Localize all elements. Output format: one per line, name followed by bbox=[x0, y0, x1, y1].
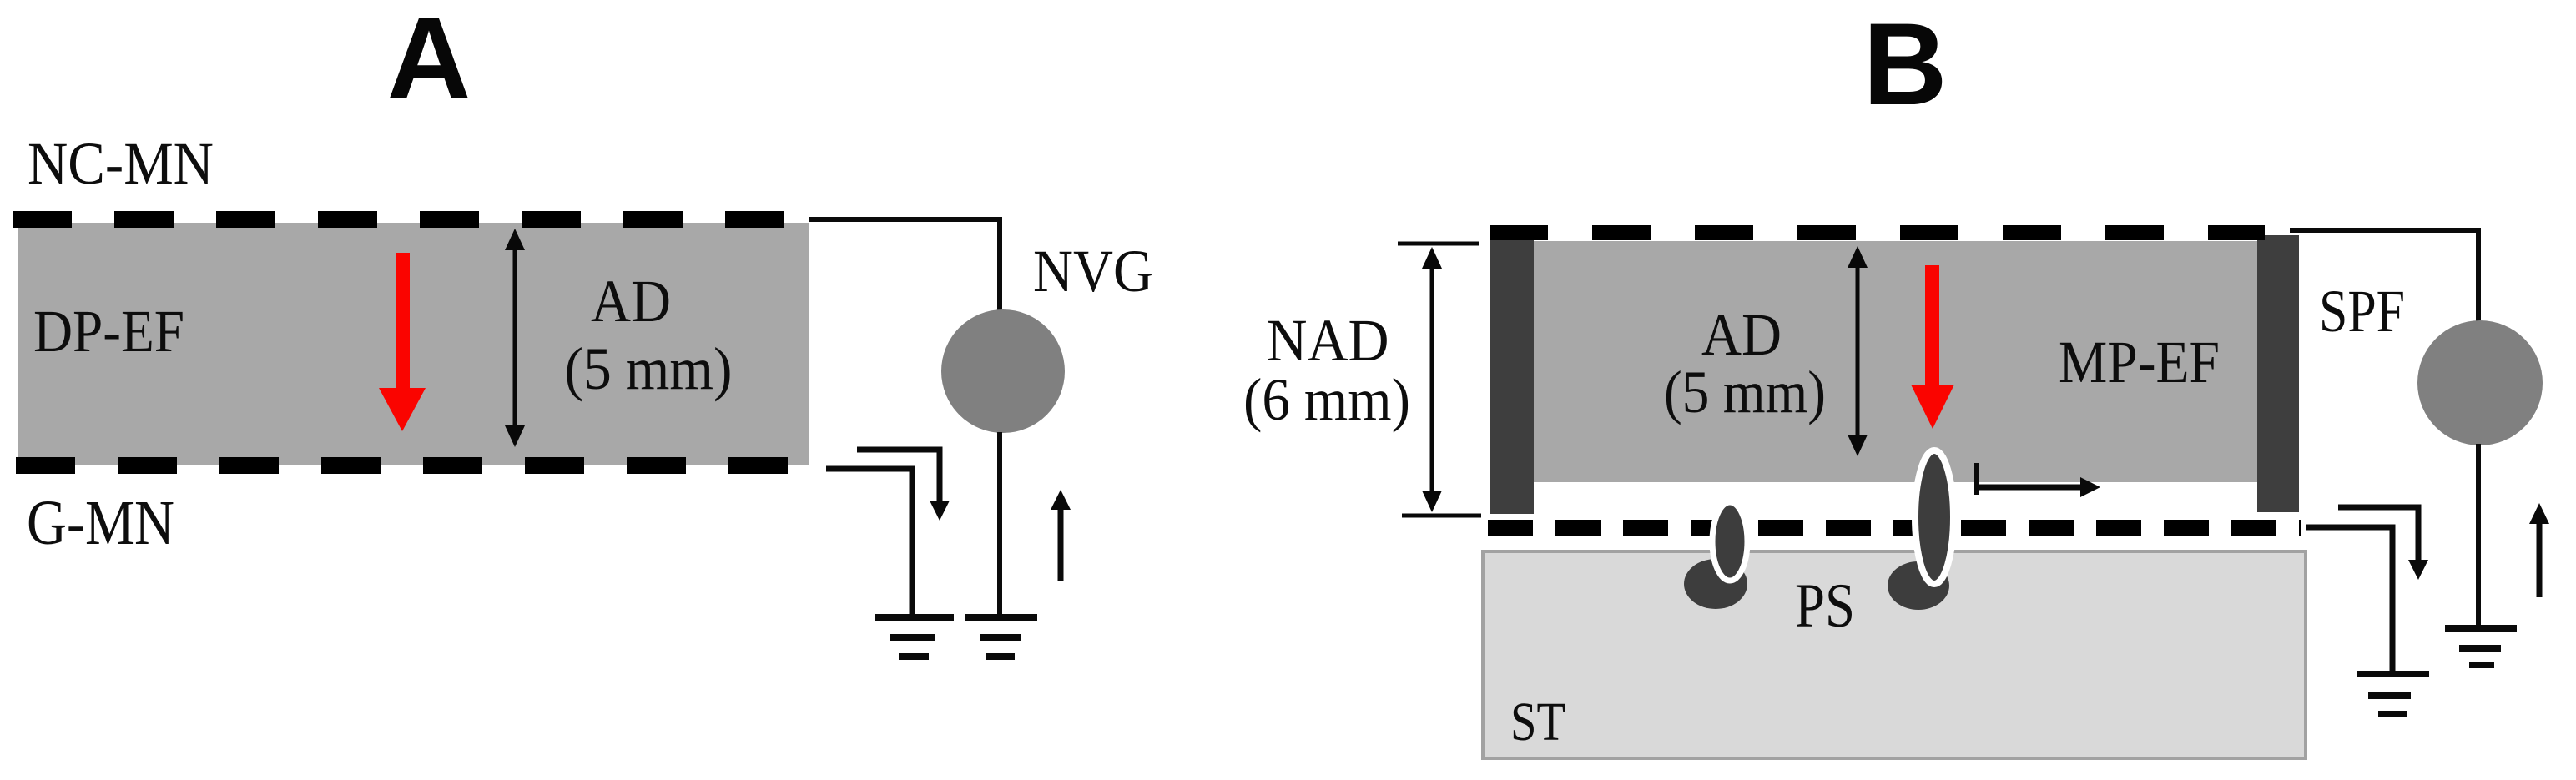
dielectric slab DP-EF bbox=[18, 223, 809, 465]
red polarization arrow A bbox=[379, 253, 426, 431]
svg-text:ST: ST bbox=[1510, 692, 1565, 752]
wire SPF to NVG (B) bbox=[2290, 230, 2478, 323]
ground hook (B) bbox=[2357, 671, 2429, 717]
svg-text:A: A bbox=[386, 0, 471, 123]
ground NVG (B) bbox=[2445, 625, 2517, 668]
ground G-MN (A) bbox=[875, 614, 954, 660]
PS droplet large bbox=[1915, 450, 1953, 584]
voltage source circle (B) bbox=[2417, 320, 2543, 445]
substrate ST bbox=[1483, 551, 2306, 758]
dimension arrow AD (A) bbox=[505, 229, 525, 447]
membrane slab MP-EF bbox=[1534, 241, 2257, 482]
red polarization arrow B bbox=[1911, 265, 1954, 429]
ground NVG (A) bbox=[965, 614, 1037, 660]
svg-text:MP-EF: MP-EF bbox=[2059, 329, 2220, 395]
svg-text:(6 mm): (6 mm) bbox=[1243, 366, 1410, 433]
electrode G-MN bottom dashed line bbox=[16, 457, 791, 474]
current arrow down (B) bbox=[2338, 507, 2418, 561]
svg-text:(5 mm): (5 mm) bbox=[1664, 359, 1826, 425]
electrode bottom dashed line (B) bbox=[1488, 520, 2301, 536]
current arrow up (A) bbox=[1058, 507, 1064, 581]
svg-text:DP-EF: DP-EF bbox=[33, 298, 184, 365]
svg-text:B: B bbox=[1863, 0, 1947, 129]
svg-text:SPF: SPF bbox=[2319, 278, 2405, 345]
dimension arrow NAD bbox=[1422, 247, 1442, 512]
PS blob large bbox=[1888, 561, 1949, 610]
svg-text:AD: AD bbox=[1701, 301, 1782, 368]
dimension arrow AD (B) bbox=[1848, 246, 1868, 456]
electrode SPF right bar bbox=[2257, 235, 2299, 512]
svg-text:NC-MN: NC-MN bbox=[28, 130, 214, 197]
current arrow up (B) bbox=[2537, 521, 2543, 597]
svg-text:AD: AD bbox=[591, 268, 671, 335]
wire NC-MN to NVG bbox=[809, 219, 1000, 311]
dimension tick top NAD bbox=[1398, 242, 1479, 246]
PS blob small bbox=[1684, 559, 1747, 609]
svg-text:NAD: NAD bbox=[1267, 307, 1389, 374]
PS droplet small bbox=[1712, 502, 1747, 581]
wire G-MN to ground hook (A) bbox=[826, 469, 912, 615]
svg-text:G-MN: G-MN bbox=[27, 488, 174, 558]
wire NVG to ground (B) bbox=[2476, 444, 2481, 627]
svg-text:PS: PS bbox=[1795, 571, 1855, 641]
svg-text:(5 mm): (5 mm) bbox=[565, 335, 733, 402]
lateral flow arrow (B) bbox=[1977, 485, 2081, 491]
wire bottom electrode to ground hook (B) bbox=[2306, 527, 2392, 673]
voltage source NVG circle bbox=[941, 309, 1065, 433]
lateral flow arrow tick (B) bbox=[1974, 463, 1979, 495]
electrode top dashed line (B) bbox=[1490, 225, 2265, 240]
svg-text:NVG: NVG bbox=[1033, 238, 1153, 304]
electrode NC-MN top dashed line bbox=[13, 211, 785, 228]
dimension tick bottom NAD bbox=[1402, 514, 1481, 518]
electrode SPF left bar bbox=[1490, 240, 1534, 514]
wire NVG to ground bbox=[997, 432, 1002, 617]
current arrow down (A) bbox=[857, 450, 940, 501]
